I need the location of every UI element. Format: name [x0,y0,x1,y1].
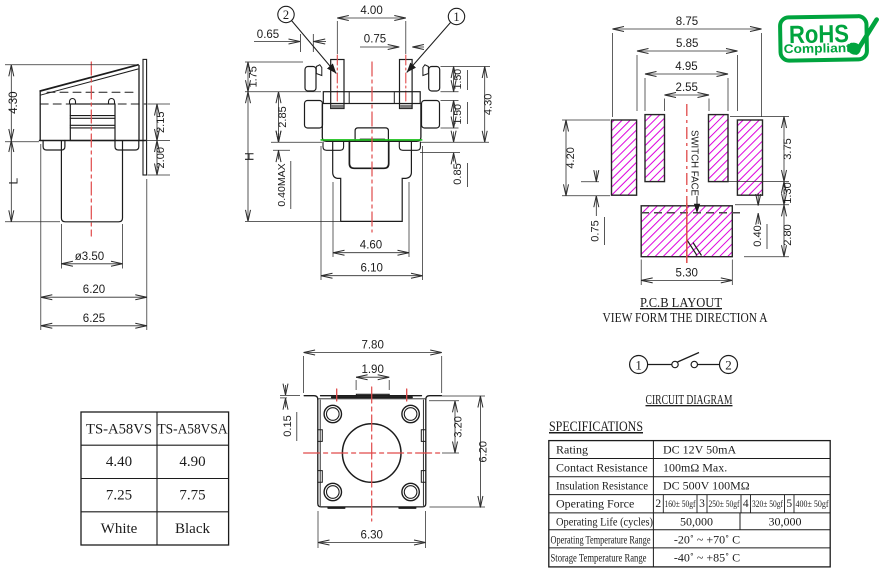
svg-text:4: 4 [743,498,749,510]
pcb pad outer-left [612,120,637,195]
svg-text:8.75: 8.75 [676,16,698,28]
top view corner rivets [324,405,341,422]
dimension 3.75 [782,117,794,182]
svg-text:6.10: 6.10 [361,263,383,275]
svg-text:P.C.B LAYOUT: P.C.B LAYOUT [640,295,723,310]
dimension 6.10 [321,263,423,276]
side view hidden dashed line upper [47,91,136,93]
dimension 2.15 [155,104,167,141]
svg-text:4.95: 4.95 [675,61,697,73]
svg-text:Operating Temperature Range: Operating Temperature Range [551,535,651,547]
dimension 0.85 [420,132,468,188]
side view group [40,59,147,236]
dimension 7.80 [304,340,442,353]
dimension 1.75 [248,62,260,92]
pcb centerline [686,104,688,203]
pcb polarity notch mark [687,240,697,256]
svg-text:1: 1 [635,358,642,373]
top view group [304,387,442,521]
front view pin 1 [400,60,413,109]
svg-text:0.65: 0.65 [257,29,279,41]
pcb pad inner-left [645,115,665,182]
svg-text:TS-A58VS: TS-A58VS [86,422,152,438]
svg-text:TS-A58VSA: TS-A58VSA [158,422,228,438]
svg-text:0.40: 0.40 [752,225,764,246]
front view button [355,128,388,141]
svg-text:Insulation Resistance: Insulation Resistance [556,479,648,493]
svg-text:ø3.50: ø3.50 [75,251,104,263]
svg-text:SPECIFICATIONS: SPECIFICATIONS [549,419,643,435]
dimension 4.00 [337,5,406,18]
svg-text:7.75: 7.75 [179,488,205,504]
svg-text:30,000: 30,000 [769,515,802,529]
RoHS logo [780,16,877,61]
svg-text:2: 2 [725,358,732,373]
front view left wing [305,101,323,129]
dimension 1.50 lower [452,101,464,129]
pcb pad outer-right [737,120,762,195]
top view center circle [342,424,401,483]
svg-text:Black: Black [175,521,210,537]
svg-text:1: 1 [453,10,459,24]
svg-text:CIRCUIT DIAGRAM: CIRCUIT DIAGRAM [646,392,733,407]
label circle 1 leader [407,8,465,72]
label circle 2 leader [278,6,337,73]
svg-text:3.20: 3.20 [453,416,465,437]
front view housing below [349,142,388,169]
svg-text:100mΩ Max.: 100mΩ Max. [663,461,727,475]
svg-text:Contact Resistance: Contact Resistance [556,461,648,475]
circuit diagram group [630,353,738,374]
svg-text:0.75: 0.75 [364,34,386,46]
circuit terminal 2 [720,356,738,374]
svg-text:White: White [101,521,138,537]
side view centerline [90,62,92,236]
dimension 1.90 [356,364,389,377]
front view right wing [422,101,440,129]
top view cover lip [332,396,412,398]
dimension 4.20 [565,120,577,196]
svg-text:6.20: 6.20 [83,284,105,296]
svg-text:2.00: 2.00 [155,147,167,168]
svg-text:-20˚ ~ +70˚ C: -20˚ ~ +70˚ C [674,533,740,547]
side view terminal plate [143,59,147,175]
dimension 2.85 [277,92,289,143]
svg-text:2: 2 [655,498,661,510]
svg-text:3.75: 3.75 [782,138,794,159]
top view bottom feet [328,507,344,509]
svg-text:7.25: 7.25 [106,488,132,504]
front view left lug [305,67,316,92]
svg-text:Compliant: Compliant [784,41,852,56]
svg-text:0.40MAX: 0.40MAX [276,163,288,206]
side view right foot [115,141,139,151]
svg-text:5: 5 [786,498,792,510]
svg-text:4.40: 4.40 [106,454,132,470]
top view red crosshair [304,452,442,454]
front view centerline [371,62,373,232]
svg-text:160± 50gf: 160± 50gf [665,499,697,510]
front view seating green line [321,139,422,141]
svg-text:DC 12V 50mA: DC 12V 50mA [663,443,736,457]
side view stem [61,141,122,222]
front view body [322,104,421,141]
svg-text:5.85: 5.85 [676,38,698,50]
side view body [39,91,41,141]
top view tab 1.90 [356,394,389,397]
svg-text:5.30: 5.30 [676,267,698,279]
svg-text:4.30: 4.30 [483,94,495,115]
top view right wing [426,396,442,400]
dimension 0.75 pins [360,34,424,48]
svg-text:Rating: Rating [556,443,588,457]
front view pin 2 [331,60,344,109]
svg-text:2.15: 2.15 [155,112,167,133]
dimension 4.95 [645,61,728,74]
pcb pad bottom [641,206,732,257]
svg-text:1.75: 1.75 [248,66,260,87]
svg-text:4.90: 4.90 [179,454,205,470]
circuit lever [678,353,700,363]
svg-text:7.80: 7.80 [361,340,383,352]
svg-text:6.20: 6.20 [478,441,490,462]
dimension 0.40MAX [273,133,291,209]
top view side notches [318,430,323,483]
svg-text:1.50: 1.50 [452,104,464,125]
circuit terminal 1 [630,356,648,374]
svg-text:Operating Life (cycles): Operating Life (cycles) [556,515,653,529]
pcb layout group [612,104,763,263]
svg-text:Storage Temperature Range: Storage Temperature Range [551,553,647,565]
circuit contact right [691,361,697,367]
svg-text:1.30: 1.30 [782,182,794,203]
svg-text:400± 50gf: 400± 50gf [796,499,830,510]
svg-text:0.75: 0.75 [590,220,602,241]
dimension 6.20 top [478,396,490,508]
dimension L side [7,141,21,222]
svg-text:H: H [243,152,257,161]
svg-text:2.80: 2.80 [782,224,794,245]
side view left foot [43,141,65,151]
front view group [305,55,440,232]
dimension 6.20 [41,284,147,297]
front view pin centerlines [336,55,338,104]
dimension 2.80 [782,205,794,257]
dimension 0.65 [254,29,326,52]
specifications table [549,441,830,567]
svg-text:3: 3 [699,498,705,510]
front view right lug [429,67,440,92]
svg-text:6.25: 6.25 [83,313,105,325]
dimension 1.50 upper [452,67,464,92]
svg-text:2.85: 2.85 [277,106,289,127]
front view left foot [323,142,344,150]
svg-text:SWITCH FACE: SWITCH FACE [689,130,700,196]
dimension 2.55 [665,82,710,95]
dimension 5.30 [641,267,732,280]
dimension 4.60 [333,240,409,253]
svg-text:L: L [7,177,21,184]
circuit contact left [672,361,678,367]
svg-text:4.00: 4.00 [360,5,382,17]
dimension 6.30 [318,530,426,543]
side view lever plate [40,65,138,91]
svg-text:6.30: 6.30 [361,530,383,542]
front view right foot [399,142,420,150]
dimension 4.30 side [8,65,20,141]
dimension H [243,92,257,222]
dimension 0.15 top view [280,385,300,441]
svg-text:1.90: 1.90 [361,364,383,376]
svg-text:2.55: 2.55 [676,82,698,94]
dimension 0.40 pcb [752,193,767,249]
wire left [648,364,672,366]
dimension 3.50 stem [61,251,122,264]
svg-text:Operating Force: Operating Force [556,497,634,511]
svg-text:-40˚ ~ +85˚ C: -40˚ ~ +85˚ C [674,551,740,565]
top view left wing [304,396,318,400]
svg-text:320± 50gf: 320± 50gf [752,499,784,510]
side view hidden dashed line lower [40,103,146,105]
svg-text:0.15: 0.15 [282,415,294,436]
side view actuator stack [70,99,116,141]
svg-text:4.30: 4.30 [8,91,20,113]
svg-text:1.50: 1.50 [452,69,464,90]
dimension 6.25 [41,313,147,326]
dimension 5.85 [637,38,738,51]
dimension 2.00 [155,141,167,176]
wire right [698,364,720,366]
dimension 8.75 [613,16,762,29]
svg-text:VIEW FORM THE DIRECTION A: VIEW FORM THE DIRECTION A [603,310,768,325]
model table [81,412,229,545]
dimension 3.20 [453,401,465,453]
dimension 0.75 pcb [581,171,605,246]
svg-text:50,000: 50,000 [680,515,713,529]
front view top bar [323,92,420,104]
svg-text:4.20: 4.20 [565,147,577,168]
pcb switch face dashed line [641,212,745,214]
pcb pad inner-right [709,115,729,182]
svg-text:4.60: 4.60 [360,240,382,252]
top view body [318,396,426,507]
dimension 1.30 [782,182,794,205]
dimension 4.30 front [483,67,495,143]
svg-text:250± 50gf: 250± 50gf [709,499,741,510]
svg-text:2: 2 [283,8,289,22]
front view wide housing and stem [333,142,412,221]
svg-text:0.85: 0.85 [452,163,464,184]
svg-text:DC 500V 100MΩ: DC 500V 100MΩ [663,479,750,493]
